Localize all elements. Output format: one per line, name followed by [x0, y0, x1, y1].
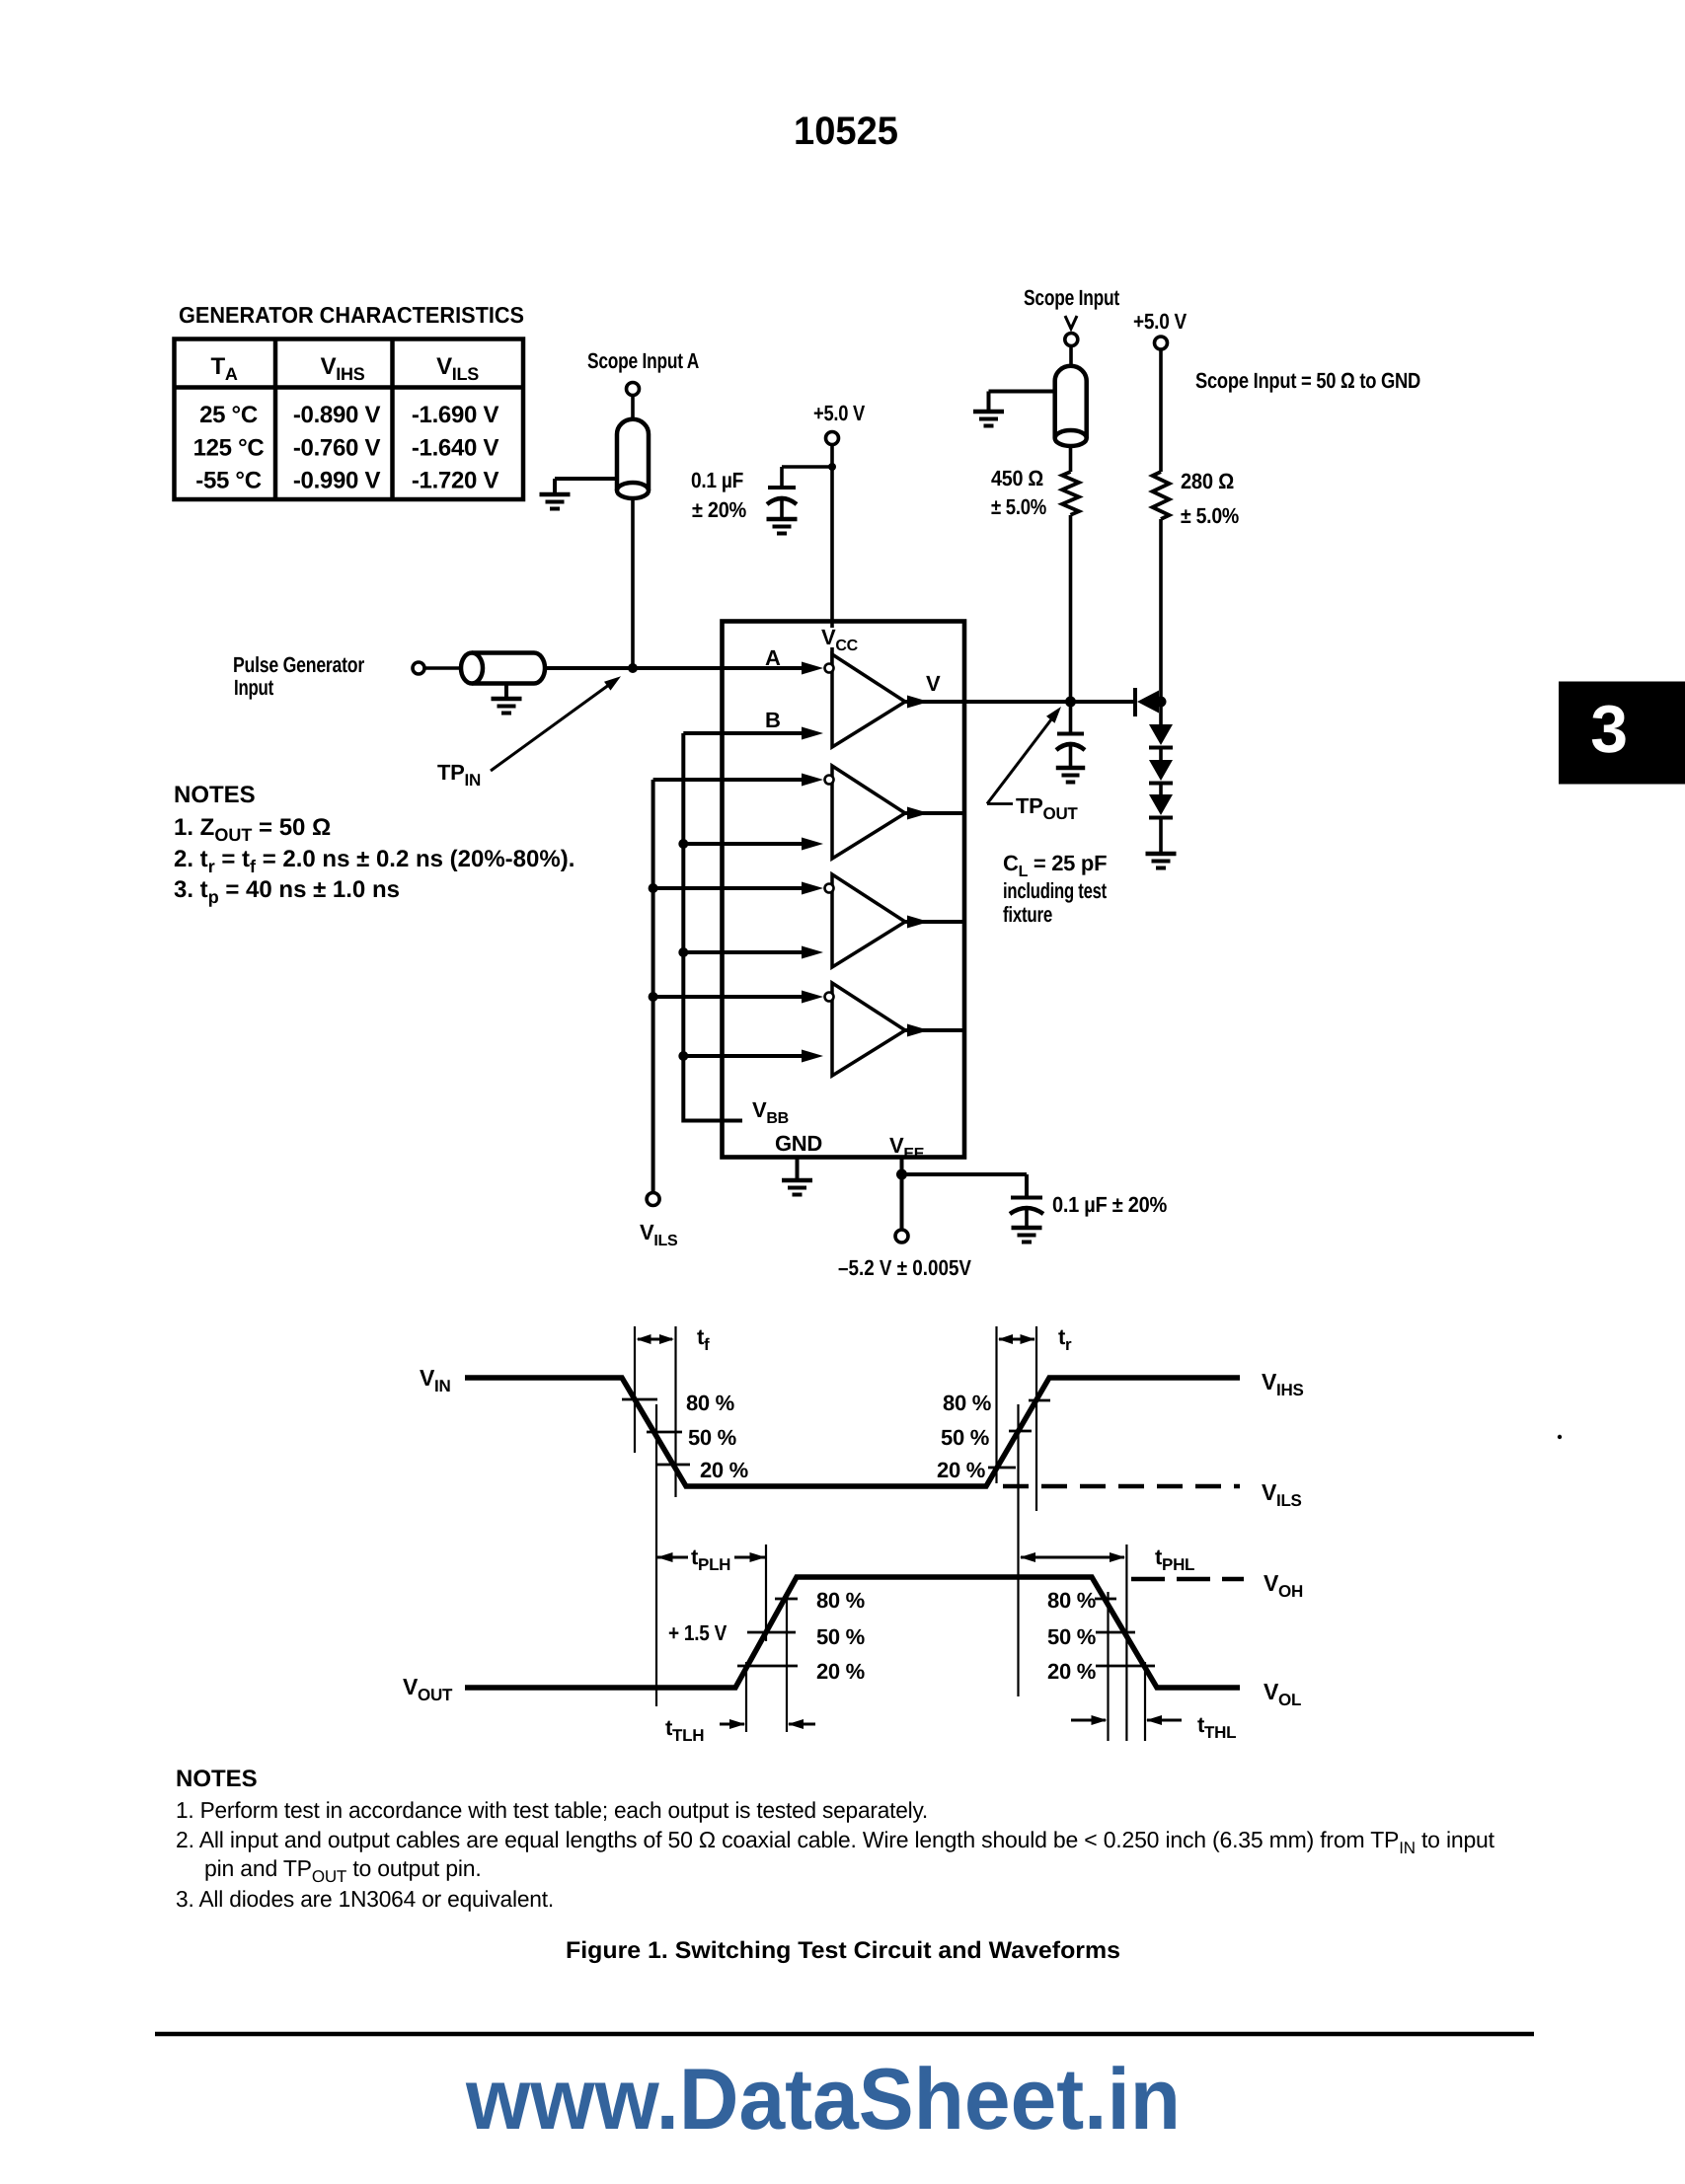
pin input arrow: [802, 1050, 823, 1063]
ground: [492, 697, 522, 702]
pin input arrow: [802, 727, 823, 740]
svg-text:± 5.0%: ± 5.0%: [1181, 503, 1239, 528]
dimension tTHL lines: [1107, 1592, 1109, 1741]
svg-text:0.1 µF ± 20%: 0.1 µF ± 20%: [1052, 1192, 1167, 1217]
svg-text:Scope Input = 50 Ω to GND: Scope Input = 50 Ω to GND: [1195, 368, 1420, 393]
dimension tTLH lines: [745, 1662, 747, 1732]
svg-text:25 °C: 25 °C: [199, 402, 258, 428]
labels percent rising: [937, 1391, 991, 1482]
ground: [782, 1178, 812, 1183]
reference line VIN fall 50%: [655, 1404, 657, 1706]
dimension tf lines: [634, 1326, 636, 1453]
gate U1b buffer: [825, 766, 906, 859]
dimension tf arrows: [638, 1338, 672, 1341]
notes bottom: [176, 1766, 1495, 1912]
wire: [631, 396, 635, 420]
coax probe Scope Input A: [617, 419, 649, 490]
tick 80% out falling: [1095, 1598, 1116, 1601]
wire: [1159, 818, 1163, 853]
svg-text:1. Perform test in accordance: 1. Perform test in accordance with test …: [176, 1797, 928, 1823]
waveform VIN trace: [465, 1378, 1240, 1486]
wire: [683, 1054, 802, 1058]
dimension tPLH: [656, 1552, 766, 1562]
wire input net to gate A: [544, 666, 802, 670]
svg-text:fixture: fixture: [1003, 902, 1052, 927]
resistor R2 280 ohm: [1153, 472, 1170, 519]
node: [678, 1051, 688, 1061]
labels percent out rising: [816, 1588, 865, 1684]
wire: [900, 1158, 904, 1231]
svg-text:80 %: 80 %: [686, 1391, 734, 1415]
wire: [1159, 519, 1163, 702]
reference line VOUT fall 50%: [1125, 1544, 1127, 1741]
wire: [683, 950, 802, 954]
diode D2: [1149, 724, 1173, 748]
svg-text:80 %: 80 %: [816, 1588, 865, 1613]
arrow TPOUT: [987, 714, 1056, 804]
svg-text:-0.990 V: -0.990 V: [293, 468, 381, 494]
svg-text:3: 3: [1590, 692, 1628, 767]
tick 20% falling: [656, 1464, 690, 1467]
pin input arrow: [802, 838, 823, 851]
svg-text:GND: GND: [775, 1131, 822, 1156]
speck: [1558, 1435, 1562, 1439]
node: [649, 992, 658, 1002]
wire: [631, 498, 635, 668]
node: [649, 883, 658, 893]
wire: [1069, 702, 1073, 732]
wire: [1069, 446, 1073, 472]
ground: [767, 517, 798, 522]
reference line VIN rise 50%: [1017, 1404, 1019, 1696]
tick 50% out falling: [1096, 1631, 1135, 1634]
svg-text:–5.2 V ± 0.005V: –5.2 V ± 0.005V: [838, 1255, 971, 1280]
capacitor C1 0.1 uF: [767, 488, 797, 517]
svg-text:50 %: 50 %: [688, 1425, 736, 1450]
svg-text:NOTES: NOTES: [176, 1766, 258, 1792]
node VCC stub: [828, 463, 836, 471]
wire: [653, 886, 802, 890]
dimension tTLH arrows: [720, 1723, 744, 1726]
svg-text:80 %: 80 %: [943, 1391, 991, 1415]
wire VILS bus: [651, 780, 655, 1193]
svg-text:GENERATOR CHARACTERISTICS: GENERATOR CHARACTERISTICS: [179, 302, 524, 328]
svg-text:-0.760 V: -0.760 V: [293, 434, 381, 461]
dashed level VILS: [1003, 1484, 1240, 1489]
node TPOUT junction: [1065, 697, 1076, 708]
svg-text:125 °C: 125 °C: [193, 434, 265, 461]
svg-text:3. All diodes are 1N3064 or e: 3. All diodes are 1N3064 or equivalent.: [176, 1886, 554, 1912]
svg-text:-1.640 V: -1.640 V: [412, 434, 499, 461]
terminal Scope Input A: [627, 383, 640, 396]
ground: [1056, 766, 1085, 771]
wire: [1069, 346, 1073, 367]
wire: [424, 666, 462, 670]
notes generator: [174, 782, 574, 907]
wire: [796, 1158, 800, 1179]
svg-text:2. tr = tf = 2.0 ns ± 0.2 ns: 2. tr = tf = 2.0 ns ± 0.2 ns (20%-80%).: [174, 846, 574, 876]
wire: [1159, 702, 1163, 724]
pin input arrow: [802, 882, 823, 895]
svg-text:10525: 10525: [794, 110, 898, 153]
tick 50% falling: [647, 1431, 682, 1434]
mark V arrow: [1065, 316, 1077, 329]
waveform VOUT trace: [465, 1577, 1240, 1688]
wire: [1159, 748, 1163, 761]
node: [896, 1169, 907, 1180]
pin input arrow: [802, 662, 823, 675]
pin output arrow: [907, 807, 929, 820]
tick 20% rising: [988, 1467, 1016, 1469]
pin output arrow: [907, 696, 929, 709]
pin input arrow: [802, 946, 823, 959]
node: [678, 839, 688, 849]
IC U1 quad gate box: [723, 622, 965, 1158]
terminal VILS: [647, 1193, 659, 1206]
svg-text:80 %: 80 %: [1047, 1588, 1096, 1613]
tick 80% falling: [622, 1398, 657, 1401]
wire: [1069, 515, 1073, 702]
pin input arrow: [802, 991, 823, 1004]
svg-text:± 20%: ± 20%: [692, 497, 746, 522]
svg-text:-0.890 V: -0.890 V: [293, 402, 381, 428]
gate U1c buffer: [825, 874, 906, 967]
node: [1156, 697, 1167, 708]
dimension tr lines: [995, 1326, 997, 1483]
svg-text:50 %: 50 %: [941, 1425, 989, 1450]
wire: [1159, 349, 1163, 472]
wire: [989, 390, 1056, 394]
wire: [1159, 784, 1163, 796]
svg-text:B: B: [765, 708, 781, 732]
svg-text:Input: Input: [234, 675, 274, 700]
wire: [902, 1172, 1028, 1176]
pin output arrow: [907, 916, 929, 929]
footer rule: [155, 2032, 1534, 2037]
svg-text:20 %: 20 %: [937, 1458, 985, 1482]
diode D3: [1149, 760, 1173, 784]
wire: [653, 778, 802, 782]
ground: [1146, 852, 1177, 857]
svg-text:3. tp = 40 ns ± 1.0 ns: 3. tp = 40 ns ± 1.0 ns: [174, 876, 400, 907]
svg-text:Figure 1. Switching Test Circu: Figure 1. Switching Test Circuit and Wav…: [566, 1937, 1120, 1964]
svg-text:20 %: 20 %: [816, 1659, 865, 1684]
terminal +5.0 V: [826, 432, 839, 445]
node: [678, 947, 688, 957]
ground: [1012, 1226, 1042, 1231]
svg-text:280 Ω: 280 Ω: [1181, 469, 1234, 493]
table GENERATOR CHARACTERISTICS: [175, 339, 524, 500]
capacitor C2 0.1 uF: [1010, 1198, 1043, 1227]
wire: [555, 477, 617, 481]
terminal Scope Input: [1065, 334, 1078, 346]
resistor R1 450 ohm: [1062, 472, 1079, 515]
tick 20% out falling: [1096, 1665, 1155, 1668]
svg-text:V: V: [926, 671, 941, 696]
svg-text:Scope Input: Scope Input: [1024, 285, 1120, 310]
svg-text:+ 1.5 V: + 1.5 V: [668, 1620, 728, 1645]
svg-text:-1.690 V: -1.690 V: [412, 402, 499, 428]
labels percent falling: [686, 1391, 748, 1482]
svg-text:+5.0 V: +5.0 V: [1133, 309, 1187, 334]
diode D1: [1135, 688, 1159, 716]
svg-text:including test: including test: [1003, 878, 1108, 903]
svg-text:± 5.0%: ± 5.0%: [991, 494, 1046, 519]
terminal +5.0 V: [1155, 337, 1168, 349]
svg-text:+5.0 V: +5.0 V: [813, 401, 866, 425]
svg-text:0.1 µF: 0.1 µF: [691, 468, 743, 492]
wire: [683, 842, 802, 846]
svg-text:20 %: 20 %: [1047, 1659, 1096, 1684]
svg-text:50 %: 50 %: [816, 1624, 865, 1649]
label CL = 25 pF including test fixture: [1003, 851, 1108, 927]
wire B bus: [683, 733, 742, 1121]
wire: [504, 684, 508, 698]
gate U1a buffer: [825, 654, 906, 747]
svg-text:Scope Input A: Scope Input A: [587, 348, 699, 373]
node TPIN junction: [628, 663, 638, 673]
pin input arrow: [802, 774, 823, 787]
svg-text:NOTES: NOTES: [174, 782, 256, 808]
wire: [683, 731, 802, 735]
terminal -5.2V: [895, 1230, 908, 1243]
svg-text:Pulse Generator: Pulse Generator: [233, 652, 365, 677]
tick 20% out rising: [737, 1665, 798, 1668]
svg-text:-55 °C: -55 °C: [195, 468, 262, 494]
diode D4: [1149, 794, 1173, 818]
wire VCC supply: [830, 445, 834, 629]
dimension tr arrows: [999, 1338, 1034, 1341]
dimension tPHL: [1021, 1556, 1124, 1559]
tick 80% out rising: [775, 1598, 798, 1601]
wire: [633, 666, 802, 670]
svg-text:www.DataSheet.in: www.DataSheet.in: [465, 2050, 1181, 2147]
ground: [540, 492, 571, 497]
arrow TPIN: [491, 681, 615, 772]
svg-text:450 Ω: 450 Ω: [991, 466, 1043, 490]
svg-text:1. ZOUT = 50 Ω: 1. ZOUT = 50 Ω: [174, 814, 331, 845]
svg-text:50 %: 50 %: [1047, 1624, 1096, 1649]
dashed level VOH: [1131, 1577, 1244, 1582]
terminal Pulse Generator: [413, 662, 424, 674]
wire: [905, 700, 1135, 704]
capacitor CL 25 pF: [1056, 734, 1085, 767]
svg-text:-1.720 V: -1.720 V: [412, 468, 499, 494]
dimension tTHL arrows: [1071, 1719, 1106, 1722]
tick 80% rising: [1029, 1399, 1050, 1402]
page tab 3: [1559, 682, 1685, 785]
wire: [905, 811, 964, 815]
pin output arrow: [907, 1024, 929, 1037]
tick 50% rising: [1009, 1430, 1032, 1433]
labels percent out falling: [1047, 1588, 1096, 1684]
ground: [973, 410, 1004, 414]
svg-text:20 %: 20 %: [700, 1458, 748, 1482]
gate U1d buffer: [825, 983, 906, 1076]
wire: [653, 995, 802, 999]
tick 50% out rising plus 1.5V: [747, 1631, 796, 1634]
coax Pulse Generator: [461, 653, 545, 684]
coax probe Scope Input: [1055, 366, 1087, 438]
wire: [905, 920, 964, 924]
reference line VOUT rise 50%: [765, 1544, 767, 1641]
wire: [905, 1028, 964, 1032]
